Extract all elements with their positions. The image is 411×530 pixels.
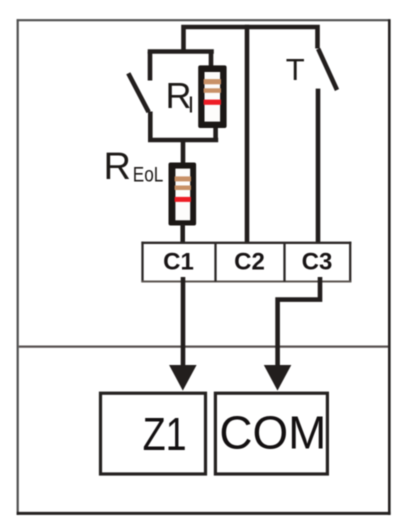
resistor R_EoL body: [169, 163, 197, 226]
svg-text:C2: C2: [234, 248, 265, 275]
switch T blade: [318, 49, 337, 90]
wire C1 to Z1 arrow shaft: [181, 277, 186, 370]
box COM: [215, 393, 327, 474]
svg-text:C3: C3: [302, 248, 333, 275]
svg-text:I: I: [188, 92, 194, 118]
wire top bus from node above R_I loop to T switch: [184, 27, 318, 52]
wire C2 vertical from top bus to terminal C2: [245, 25, 250, 244]
wire C3 jog to COM arrow shaft: [278, 277, 320, 370]
arrowhead into COM: [264, 365, 292, 391]
terminal block C1 C2 C3: [141, 242, 351, 283]
frame divider line: [19, 346, 388, 348]
wire T bottom contact down to terminal C3: [316, 89, 321, 244]
wire from R_EoL down to terminal C1: [180, 224, 185, 244]
switch S1 blade: [128, 73, 148, 112]
frame left border: [17, 19, 19, 515]
wire switch bottom contact: [148, 112, 153, 141]
wire loop top (parallel branch): [148, 49, 214, 54]
resistor R_I body: [198, 65, 226, 128]
frame top border: [17, 19, 391, 21]
frame right border: [388, 19, 391, 515]
svg-text:C1: C1: [163, 248, 194, 275]
svg-text:EoL: EoL: [133, 163, 164, 186]
svg-text:T: T: [286, 52, 305, 87]
wire from loop bottom down to R_EoL: [181, 140, 186, 164]
box Z1: [101, 393, 206, 474]
svg-text:R: R: [104, 146, 131, 188]
wire R_I bottom lead: [213, 126, 218, 140]
wire R_I top lead: [209, 52, 214, 68]
wire switch top contact: [148, 52, 153, 81]
svg-text:Z1: Z1: [143, 408, 187, 460]
arrowhead into Z1: [169, 365, 197, 391]
wire loop bottom (parallel branch): [148, 138, 218, 143]
svg-text:COM: COM: [219, 407, 326, 459]
frame bottom border: [17, 512, 391, 515]
